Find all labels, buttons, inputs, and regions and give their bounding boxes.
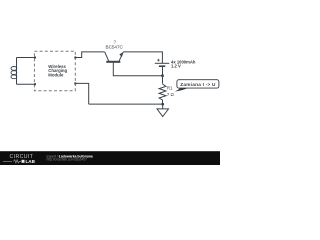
svg-text:7 Ω: 7 Ω: [167, 92, 175, 97]
svg-text:R1: R1: [167, 86, 173, 91]
svg-text:Module: Module: [48, 72, 64, 77]
svg-text:1.2 V: 1.2 V: [171, 64, 181, 69]
svg-text:BC547C: BC547C: [106, 45, 124, 50]
svg-text:http://circuitlab.com/c6yb457: http://circuitlab.com/c6yb457: [47, 158, 88, 162]
svg-text:Zamiana I -> U: Zamiana I -> U: [180, 82, 216, 87]
svg-text:LAB: LAB: [26, 159, 36, 164]
